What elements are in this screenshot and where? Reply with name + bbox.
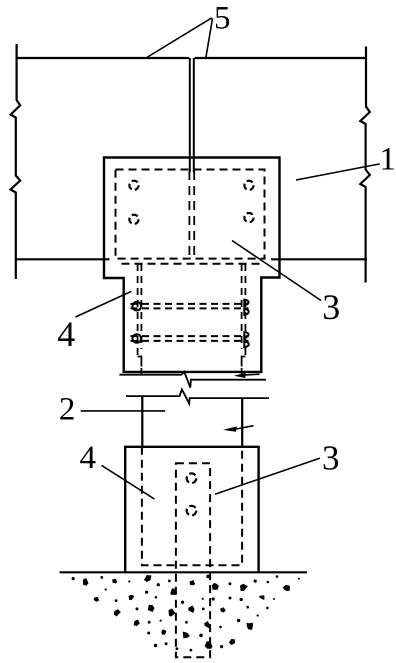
svg-text:4: 4 [57,314,75,354]
svg-text:3: 3 [322,439,340,478]
leader for label 3 (upper) [232,241,321,301]
column splice double web plate lines [189,58,191,172]
leader for label 4 (lower) [102,465,155,499]
break line top of lower column [126,389,269,403]
lower column stub right edge [241,398,243,447]
leader for label 2 [81,410,166,412]
bolt upper-right profile [244,299,248,316]
anchor bolt hole upper (dashed circle) [187,473,197,483]
break line under base plate [119,372,266,388]
beam top flange line left segment [16,57,190,59]
weld arrow lower (points left) [236,426,254,429]
bolt hole bottom-right (dashed circle) [244,213,253,222]
connection end plate (hidden, dashed) [116,170,265,259]
leader for label 4 (upper) [76,291,132,317]
svg-text:3: 3 [322,287,340,327]
lower bolt row hidden double line [131,335,249,337]
bolt head upper-left (circle) [133,302,142,311]
bolt hole top-right (dashed circle) [244,181,253,190]
leader for label 1 [296,164,380,180]
beam top flange line right segment [195,57,368,59]
beam bottom flange line left segment [16,258,110,260]
bolt lower-right profile [244,331,248,348]
svg-text:2: 2 [59,392,76,428]
svg-text:5: 5 [214,1,231,37]
bolt hole bottom-left (dashed circle) [129,215,138,224]
beam bottom flange line right segment [271,258,367,260]
leader for label 3 (lower) [215,458,320,494]
hidden column inside foundation (dashed) [142,447,242,565]
bolt head lower-left (circle) [133,334,142,343]
leader for label 5 (left stroke) [147,18,212,58]
hidden web double line inside plate [188,171,190,259]
ground hatch speckles [72,575,300,652]
svg-text:4: 4 [80,440,97,476]
anchor bolt hidden lines right pair [244,264,246,357]
upper bolt row hidden double line [131,303,249,305]
column cap outline with stepped base [104,158,280,372]
beam right cut end with break marks [360,47,370,283]
hidden beam flange line below plate [122,263,262,265]
anchor bolt hole lower (dashed circle) [187,506,197,516]
ground line [60,571,308,573]
weld arrow upper (points left) [243,373,260,376]
foundation block outline [125,447,258,573]
svg-text:1: 1 [379,142,396,178]
bolt hole top-left (dashed circle) [129,181,138,190]
leader for label 5 (right stroke) [206,19,213,58]
lower column stub left edge [141,396,143,447]
hidden anchor plate (tall dashed rect) [176,463,210,657]
anchor bolt hidden lines left pair [137,264,139,357]
beam left cut end with break marks [11,44,21,279]
